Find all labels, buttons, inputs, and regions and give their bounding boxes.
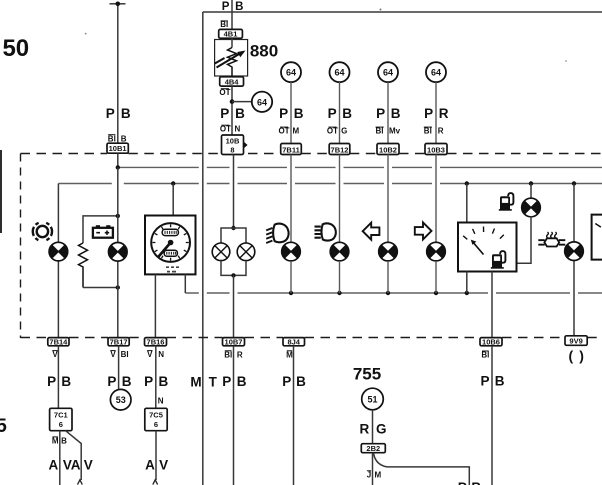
wire M T long vertical xyxy=(202,12,204,485)
svg-text:T: T xyxy=(209,375,218,390)
svg-text:P: P xyxy=(480,374,489,389)
svg-text:51: 51 xyxy=(367,395,377,405)
svg-text:P: P xyxy=(376,106,385,121)
svg-text:Mv: Mv xyxy=(389,126,401,135)
left turn arrow icon xyxy=(363,223,380,240)
bus 1 (top supply rail inside cluster) xyxy=(118,166,602,168)
connector 8J4 xyxy=(283,338,305,346)
right indicator warning lamp xyxy=(427,242,446,261)
battery icon xyxy=(93,225,113,238)
svg-text:P: P xyxy=(106,106,115,121)
wire 2B2 branch to right xyxy=(374,453,470,485)
illumination lamp bracket bottom xyxy=(221,261,246,276)
svg-text:OT: OT xyxy=(220,125,231,134)
speedometer unit 880? (instrument) xyxy=(145,216,196,275)
wire lamp2 to return bus xyxy=(339,261,341,293)
wire 2B2 down (J M) xyxy=(372,453,374,485)
connector 10B3 xyxy=(425,144,447,155)
svg-text:64: 64 xyxy=(334,68,344,78)
svg-text:OT: OT xyxy=(278,126,289,135)
wire 8J4 down xyxy=(293,346,295,485)
svg-text:BI: BI xyxy=(376,126,384,135)
top feed rail wire (M T) xyxy=(203,11,602,13)
left indicator warning lamp xyxy=(379,242,398,261)
svg-text:755: 755 xyxy=(353,365,381,384)
svg-text:V: V xyxy=(159,457,168,472)
svg-text:B: B xyxy=(121,106,131,121)
wire lamp4 to return bus xyxy=(435,261,437,293)
rheostat 880 adjustment arrow xyxy=(217,54,241,68)
scan artifact: dark left-edge streak xyxy=(0,150,2,233)
right-hand gauge unit (cut off) xyxy=(592,215,602,260)
svg-text:P: P xyxy=(282,374,291,389)
wire to 10B1 from top xyxy=(117,4,119,143)
illumination bulb left xyxy=(212,243,230,261)
wire 10B1 to bus xyxy=(117,153,119,167)
svg-text:M: M xyxy=(190,375,201,390)
svg-text:R: R xyxy=(360,422,370,437)
connector 9V9 (optional) xyxy=(565,336,587,346)
dipped beam icon xyxy=(266,224,288,243)
wire 7B14 to 7C1 xyxy=(57,346,59,409)
svg-text:J: J xyxy=(367,471,371,480)
svg-text:N: N xyxy=(158,397,164,406)
node: illumination merge xyxy=(231,273,235,277)
charge warning lamp xyxy=(108,243,127,262)
svg-text:P: P xyxy=(279,106,288,121)
svg-text:P: P xyxy=(47,374,56,389)
svg-text:8J4: 8J4 xyxy=(287,337,300,346)
svg-text:7C5: 7C5 xyxy=(149,411,163,420)
svg-text:7B11: 7B11 xyxy=(282,145,300,154)
svg-text:10B: 10B xyxy=(226,137,240,146)
svg-text:G: G xyxy=(376,422,387,437)
svg-text:10B6: 10B6 xyxy=(482,337,500,346)
wire bus2 to speedometer xyxy=(172,184,174,216)
connector 7B14 xyxy=(48,338,69,346)
wire to 10B7 xyxy=(233,275,235,337)
svg-text:P: P xyxy=(220,106,229,121)
svg-text:7C1: 7C1 xyxy=(54,411,68,420)
svg-text:B: B xyxy=(237,374,247,389)
wire 7B16 to 7C5 xyxy=(155,346,157,409)
wire through charge lamp xyxy=(117,167,119,337)
svg-text:10B7: 10B7 xyxy=(225,337,243,346)
net reference circle 64 xyxy=(252,92,272,112)
wire lamp3 to return bus xyxy=(387,261,389,293)
connector 4B4 xyxy=(220,77,244,86)
svg-text:BI: BI xyxy=(424,126,432,135)
connector 7C5 pin 6 xyxy=(145,408,167,430)
svg-text:53: 53 xyxy=(116,395,126,405)
svg-text:B: B xyxy=(235,1,243,13)
bus 3 (lamp return rail) xyxy=(185,292,602,294)
svg-text:64: 64 xyxy=(286,68,296,78)
svg-text:B: B xyxy=(391,106,401,121)
wire bus2 to brake lamp to 7B14 xyxy=(57,184,59,338)
instrument cluster boundary (dashed left) xyxy=(20,154,22,339)
wire 10B3 to lamp4 xyxy=(435,155,437,243)
wire 7B11 to lamp1 xyxy=(290,155,292,243)
wire 10B7 down xyxy=(233,346,235,485)
speedometer output to 7B16 xyxy=(154,274,156,337)
svg-text:BI: BI xyxy=(481,351,489,360)
wire 7C1 down (A V) xyxy=(59,431,61,485)
wire 10B/8 to illumination lamps xyxy=(233,155,235,229)
svg-text:G: G xyxy=(341,126,347,135)
wire 51 to 2B2 xyxy=(372,410,374,444)
svg-text:B: B xyxy=(159,374,169,389)
svg-text:BI: BI xyxy=(108,135,116,144)
resistor (charge lamp shunt) xyxy=(83,216,118,243)
svg-text:7B12: 7B12 xyxy=(331,145,349,154)
wire 7B12 to lamp2 xyxy=(339,155,341,243)
svg-text:B: B xyxy=(61,436,67,445)
wire 10B6 down xyxy=(491,346,493,485)
lights-on warning lamp xyxy=(282,242,301,261)
rheostat 880 outline xyxy=(215,40,248,77)
svg-text:M: M xyxy=(374,471,381,480)
svg-text:M: M xyxy=(286,350,293,359)
svg-text:8: 8 xyxy=(230,146,234,155)
handbrake/brake warning icon xyxy=(33,223,52,240)
wire 64 to 7B11 xyxy=(290,82,292,143)
svg-text:P: P xyxy=(458,480,467,485)
svg-text:7B14: 7B14 xyxy=(49,337,68,346)
connector 10B1 xyxy=(107,143,128,153)
svg-text:A: A xyxy=(71,457,81,472)
illumination bulb right xyxy=(237,243,255,261)
svg-text:B: B xyxy=(121,135,127,144)
instrument cluster boundary (dashed bottom) xyxy=(21,337,602,339)
svg-text:P: P xyxy=(328,106,337,121)
wire fuel gauge to return bus xyxy=(466,272,468,294)
svg-text:B: B xyxy=(471,480,481,485)
connector 7C1 pin 6 xyxy=(50,408,72,430)
net reference circle 51 xyxy=(362,388,384,410)
svg-text:B: B xyxy=(61,374,71,389)
svg-text:A: A xyxy=(145,457,155,472)
bus 1 junction dot xyxy=(116,165,120,169)
wire to circle 64 xyxy=(232,101,252,103)
node: charge branch bottom xyxy=(116,285,120,289)
svg-text:B: B xyxy=(296,374,306,389)
svg-text:): ) xyxy=(579,348,584,364)
wire 64 to 7B12 xyxy=(339,82,341,143)
svg-text:BI: BI xyxy=(121,350,129,359)
node: charge branch top xyxy=(116,214,120,218)
svg-text:10B1: 10B1 xyxy=(109,144,127,153)
svg-text:N: N xyxy=(158,350,164,359)
speedometer output to return bus xyxy=(184,274,186,293)
exhaust overheat icon xyxy=(538,232,565,247)
wire 4B4 down to 10B/8 xyxy=(231,86,233,135)
net reference circle 64 (feed of 7B12) xyxy=(330,62,350,82)
node: illumination split xyxy=(231,226,235,230)
svg-text:N: N xyxy=(235,125,241,134)
svg-text:V: V xyxy=(84,457,93,472)
svg-text:B: B xyxy=(495,374,505,389)
svg-text:V: V xyxy=(52,350,58,359)
svg-text:B: B xyxy=(342,106,352,121)
net reference circle 64 (feed of 10B2) xyxy=(378,62,398,82)
connector 7B11 xyxy=(281,144,302,155)
connector 10B6 xyxy=(480,338,502,346)
exhaust temp warning lamp xyxy=(565,242,584,261)
connector 7B17 xyxy=(108,338,129,346)
low fuel warning lamp xyxy=(522,198,541,217)
wire 7C1 branch diagonal (A V) xyxy=(66,431,82,480)
connector 10B7 xyxy=(223,338,245,346)
svg-text:R: R xyxy=(438,126,444,135)
svg-text:OT: OT xyxy=(219,88,230,97)
rheostat 880 resistor element xyxy=(231,38,233,47)
junction at top edge xyxy=(110,3,126,5)
svg-text:64: 64 xyxy=(431,68,441,78)
svg-text:R: R xyxy=(439,106,449,121)
connector 7B16 xyxy=(145,338,167,346)
svg-text:4B4: 4B4 xyxy=(225,77,240,86)
svg-text:B: B xyxy=(235,106,245,121)
svg-text:P: P xyxy=(144,374,153,389)
wire bus2 to fuel gauge xyxy=(466,184,468,223)
wire fuel gauge to 10B6 xyxy=(491,272,493,338)
wire bus2 to low fuel lamp xyxy=(530,184,532,199)
svg-text:B: B xyxy=(122,374,132,389)
main beam warning lamp xyxy=(330,242,349,261)
wire 7C5 down (A V) xyxy=(155,431,157,480)
svg-text:A: A xyxy=(49,457,59,472)
svg-text:2B2: 2B2 xyxy=(366,444,380,453)
svg-text:7B16: 7B16 xyxy=(147,337,165,346)
connector 7B12 xyxy=(329,144,350,155)
wire low fuel lamp into gauge xyxy=(517,216,532,263)
svg-text:V: V xyxy=(110,350,116,359)
right turn arrow icon xyxy=(415,222,432,239)
wire bus2 to temp lamp to 9V9 xyxy=(573,184,575,336)
net reference circle 64 (feed of 10B3) xyxy=(426,62,446,82)
wire 64 to 10B2 xyxy=(387,82,389,143)
svg-text:50: 50 xyxy=(2,35,29,62)
bus 3 junction dots xyxy=(289,291,293,295)
bus 2 junction dots xyxy=(171,181,175,185)
fuel gauge unit xyxy=(458,223,517,272)
svg-text:P: P xyxy=(107,374,116,389)
svg-text:9V9: 9V9 xyxy=(569,336,582,345)
illumination lamp bracket top xyxy=(221,228,246,243)
svg-text:10B2: 10B2 xyxy=(379,145,397,154)
brake warning lamp xyxy=(49,242,68,261)
connector 2B2 xyxy=(361,444,385,453)
svg-text:64: 64 xyxy=(257,97,267,107)
svg-text:6: 6 xyxy=(59,420,63,429)
main beam icon xyxy=(315,223,336,240)
net reference circle 64 (feed of 7B11) xyxy=(281,62,301,82)
wire 7B17 to circle 53 xyxy=(118,346,120,390)
node 64 junction dot xyxy=(230,99,235,104)
svg-text:P: P xyxy=(222,374,231,389)
net reference circle 53 xyxy=(110,389,131,410)
svg-text:880: 880 xyxy=(250,42,278,61)
connector 10B2 xyxy=(377,144,399,155)
connector 4B1 xyxy=(219,29,243,38)
svg-text:6: 6 xyxy=(154,420,158,429)
svg-text:5: 5 xyxy=(0,416,7,437)
connector 10B pin 8 xyxy=(222,135,244,155)
svg-text:OT: OT xyxy=(327,126,338,135)
svg-text:P: P xyxy=(222,1,230,13)
bus 2 (second supply rail) xyxy=(58,183,602,185)
svg-text:B: B xyxy=(294,106,304,121)
wire lamp1 to return bus xyxy=(290,261,292,293)
svg-text:7B17: 7B17 xyxy=(110,337,128,346)
splice mark xyxy=(153,480,158,485)
scan specks xyxy=(380,9,382,11)
svg-text:M: M xyxy=(292,126,299,135)
splice mark xyxy=(78,480,83,485)
fuel pump icon inside gauge xyxy=(491,251,506,269)
svg-text:4B1: 4B1 xyxy=(224,30,238,39)
fuel pump icon (low fuel) xyxy=(499,193,514,211)
instrument cluster boundary (dashed top) xyxy=(21,153,602,155)
svg-text:(: ( xyxy=(568,348,573,364)
wire 64 to 10B3 xyxy=(435,82,437,143)
svg-text:R: R xyxy=(237,350,243,359)
wire 10B2 to lamp3 xyxy=(387,155,389,243)
svg-text:V: V xyxy=(147,350,153,359)
svg-text:10B3: 10B3 xyxy=(427,145,445,154)
svg-text:M: M xyxy=(52,436,59,445)
svg-text:BI: BI xyxy=(224,350,232,359)
svg-text:P: P xyxy=(424,106,433,121)
svg-text:64: 64 xyxy=(383,68,393,78)
